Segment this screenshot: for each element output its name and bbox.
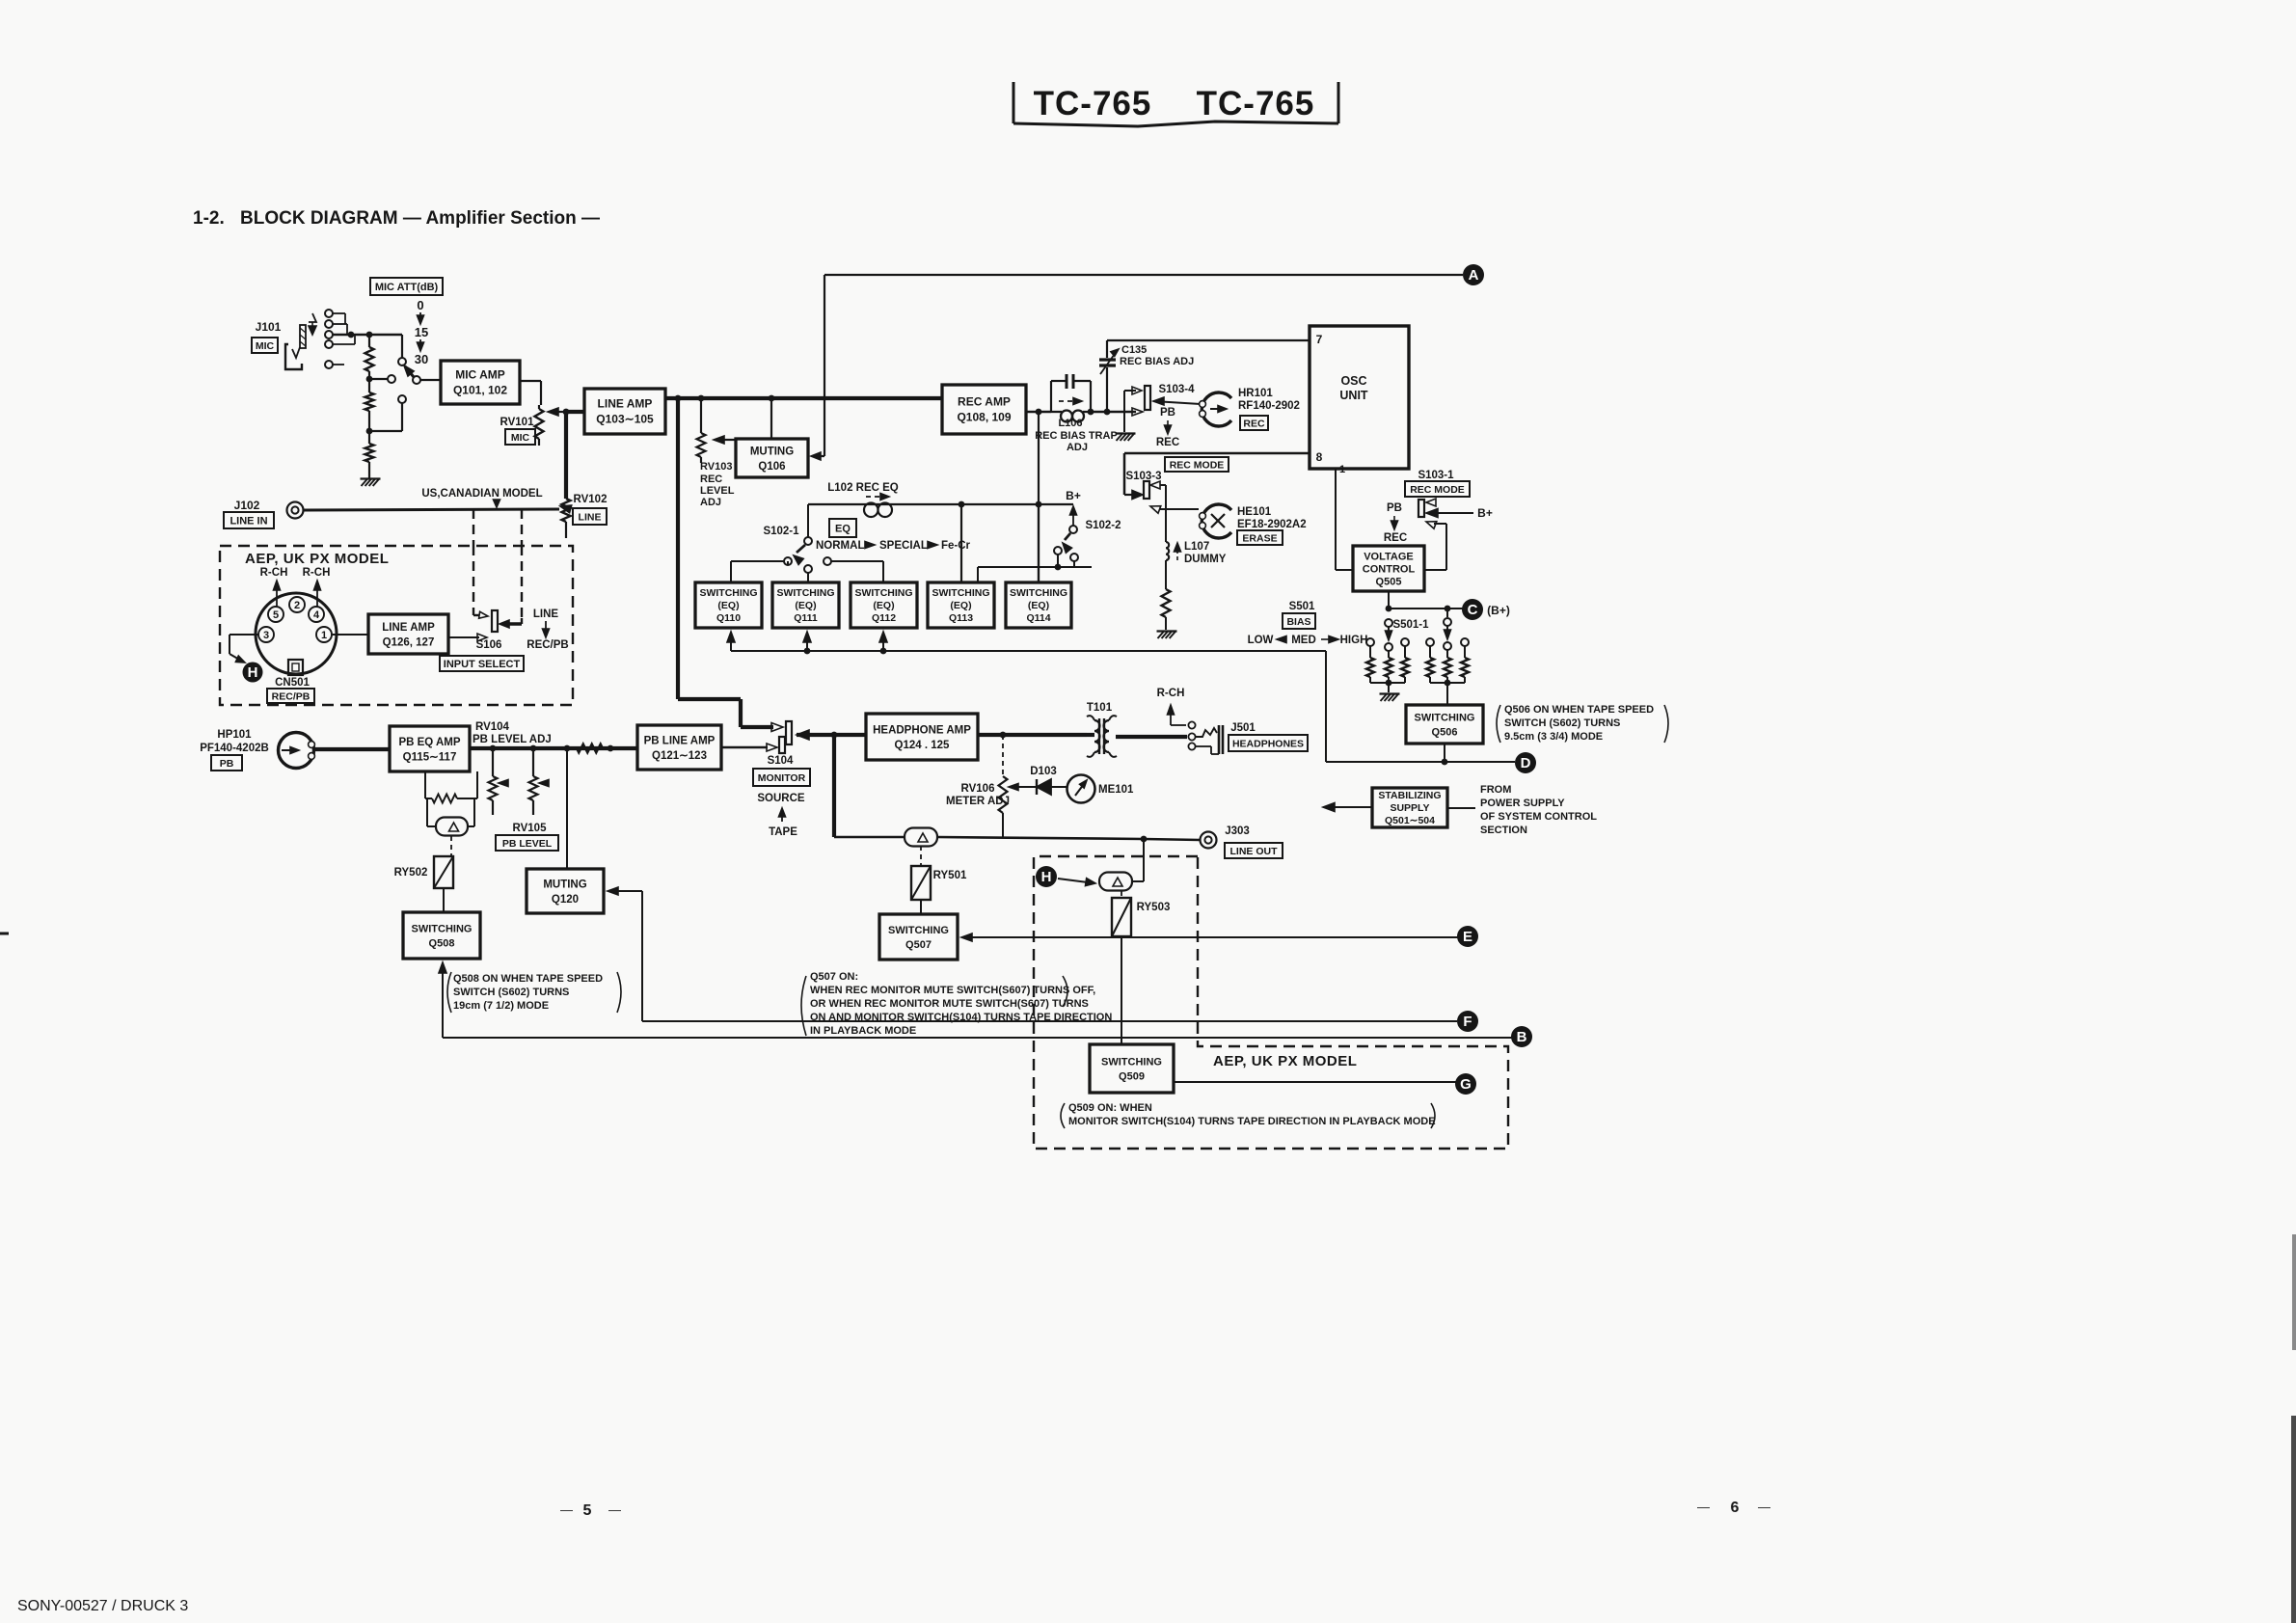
svg-text:6: 6 bbox=[1731, 1500, 1740, 1516]
svg-text:(EQ): (EQ) bbox=[1028, 600, 1049, 611]
wire from power supply bbox=[1447, 807, 1475, 809]
svg-text:—: — bbox=[1697, 1500, 1710, 1514]
feedback loop PB EQ AMP bbox=[424, 771, 426, 798]
svg-text:Q126, 127: Q126, 127 bbox=[383, 636, 435, 648]
svg-text:R-CH: R-CH bbox=[1157, 688, 1185, 699]
junction RV103 bbox=[698, 395, 705, 402]
arrow bus into Q112 bbox=[880, 648, 887, 655]
S102-1 SPECIAL contact bbox=[824, 557, 831, 565]
svg-text:—: — bbox=[560, 1502, 573, 1517]
junction RV104 bbox=[490, 745, 497, 752]
dashed box AEP UK PX MODEL bottom bbox=[1034, 856, 1508, 1149]
junction thick bus down bbox=[675, 395, 682, 402]
block VOLTAGE CONTROL Q505 bbox=[1353, 546, 1424, 591]
svg-text:Q112: Q112 bbox=[872, 612, 896, 624]
svg-text:RV103: RV103 bbox=[700, 461, 732, 473]
dashed link RY501 bbox=[920, 846, 922, 866]
wire PB LINE AMP to S104 bbox=[721, 746, 768, 748]
svg-text:SWITCH (S602) TURNS: SWITCH (S602) TURNS bbox=[453, 987, 569, 998]
svg-text:LOW: LOW bbox=[1248, 635, 1274, 646]
wire J102 LINE IN bbox=[304, 509, 559, 510]
jack J101 plug symbol bbox=[285, 344, 302, 369]
junction RV105 bbox=[530, 745, 537, 752]
label PB LEVEL boxed bbox=[496, 835, 558, 851]
svg-text:SWITCHING: SWITCHING bbox=[1415, 712, 1475, 723]
svg-text:CONTROL: CONTROL bbox=[1363, 563, 1416, 575]
svg-text:REC/PB: REC/PB bbox=[272, 690, 311, 702]
svg-text:Q110: Q110 bbox=[716, 612, 741, 624]
feedback relay contact RY502 bbox=[426, 798, 428, 826]
L107 dashed arrow bbox=[1176, 550, 1178, 560]
svg-text:—: — bbox=[608, 1502, 621, 1517]
switch S102-1 bbox=[807, 504, 809, 537]
svg-text:R-CH: R-CH bbox=[303, 567, 331, 579]
wire thick bus down to S104 bbox=[676, 398, 680, 699]
svg-text:VOLTAGE: VOLTAGE bbox=[1364, 551, 1414, 562]
svg-text:ON AND MONITOR SWITCH(S104) TU: ON AND MONITOR SWITCH(S104) TURNS TAPE D… bbox=[810, 1012, 1112, 1023]
wire S102-1 throw2 to Q112 bbox=[831, 560, 883, 562]
wire C node to S501-1 second pole bbox=[1446, 609, 1448, 617]
wire bias bank to Q506 bbox=[1446, 683, 1448, 705]
node G bbox=[1455, 1073, 1476, 1095]
transformer T101 bbox=[1098, 718, 1100, 754]
wire HEADPHONE AMP to T101 bbox=[978, 733, 1087, 737]
wire S104 node down to line out bbox=[832, 735, 836, 837]
wire MIC AMP to RV101 bbox=[520, 380, 541, 382]
svg-text:H: H bbox=[1041, 869, 1052, 885]
svg-text:PB: PB bbox=[1160, 407, 1175, 419]
label REC MODE S103-3 bbox=[1165, 457, 1229, 472]
svg-text:H: H bbox=[248, 664, 258, 681]
switch S106 bar bbox=[492, 610, 498, 632]
svg-text:A: A bbox=[1469, 267, 1479, 284]
svg-text:ADJ: ADJ bbox=[1067, 442, 1088, 453]
wire S103-1 from OSC pin1 bbox=[1335, 469, 1337, 570]
svg-text:T101: T101 bbox=[1087, 702, 1113, 714]
S103-1 lower contact to Q505 bbox=[1426, 522, 1437, 529]
S103-3 PB contact to dummy load bbox=[1150, 481, 1160, 489]
block SWITCHING Q509 bbox=[1090, 1044, 1174, 1093]
L102 dashed arrow bbox=[866, 496, 881, 498]
arrow PB to REC bbox=[1167, 420, 1169, 428]
label BIAS boxed bbox=[1283, 613, 1315, 629]
svg-text:AEP, UK PX MODEL: AEP, UK PX MODEL bbox=[1213, 1053, 1357, 1069]
node F bbox=[1457, 1011, 1478, 1032]
svg-text:5: 5 bbox=[273, 609, 279, 621]
svg-text:RV102: RV102 bbox=[574, 494, 608, 505]
label PB boxed bbox=[211, 755, 242, 771]
wire RY501 to Q507 bbox=[920, 900, 922, 914]
svg-text:RY502: RY502 bbox=[394, 867, 428, 879]
S103-4 upper contact ground hook bbox=[1132, 387, 1142, 394]
svg-text:1-2.: 1-2. bbox=[193, 208, 225, 229]
svg-text:Q101, 102: Q101, 102 bbox=[453, 384, 507, 397]
wire B line to Q508 bbox=[439, 962, 446, 973]
svg-text:Q103∼105: Q103∼105 bbox=[596, 413, 654, 426]
DIN pin 1 bbox=[316, 627, 332, 642]
wire down to RV103 bbox=[700, 398, 702, 433]
svg-text:EQ: EQ bbox=[835, 523, 851, 534]
switch S103-1 bar bbox=[1418, 500, 1424, 517]
svg-text:0: 0 bbox=[417, 298, 423, 312]
jack J501 contacts bbox=[1188, 721, 1195, 728]
svg-text:STABILIZING: STABILIZING bbox=[1378, 790, 1441, 801]
block MIC AMP Q101,102 bbox=[441, 361, 520, 404]
svg-text:Q505: Q505 bbox=[1376, 576, 1402, 587]
switch S103-4 bar bbox=[1145, 386, 1150, 410]
svg-text:B: B bbox=[1517, 1029, 1527, 1045]
svg-text:MONITOR SWITCH(S104) TURNS TAP: MONITOR SWITCH(S104) TURNS TAPE DIRECTIO… bbox=[1068, 1116, 1436, 1127]
junction PB line resistor right bbox=[608, 745, 614, 752]
svg-text:HEADPHONE AMP: HEADPHONE AMP bbox=[873, 724, 971, 736]
wire Q114 top from L102 bbox=[1038, 504, 1040, 582]
label MIC for J101 bbox=[252, 338, 278, 353]
dashed corner into S106 from line1 bbox=[473, 609, 474, 615]
wire F line to MUTING Q120 bbox=[608, 887, 618, 895]
DIN pin 2 bbox=[289, 597, 305, 612]
svg-text:MIC: MIC bbox=[511, 432, 530, 444]
connector J303 bbox=[1201, 832, 1217, 849]
potentiometer RV105 bbox=[532, 748, 534, 776]
dashed link to RY502 bbox=[450, 836, 452, 856]
svg-text:C135: C135 bbox=[1121, 344, 1147, 356]
svg-text:REC MODE: REC MODE bbox=[1170, 459, 1225, 471]
junction C135 bbox=[1104, 409, 1111, 416]
relay RY502 bbox=[434, 856, 453, 888]
label REC MODE S103-1 bbox=[1405, 481, 1470, 497]
pb head HP101 bbox=[279, 733, 314, 769]
svg-text:NORMAL: NORMAL bbox=[816, 540, 864, 552]
svg-text:METER ADJ: METER ADJ bbox=[946, 796, 1010, 807]
label MIC ATT(dB) bbox=[370, 278, 443, 295]
wire line out to J303 bbox=[937, 837, 1144, 839]
junction L106 right bbox=[1088, 409, 1094, 416]
svg-text:Q507: Q507 bbox=[905, 939, 932, 951]
svg-text:HE101: HE101 bbox=[1237, 506, 1272, 518]
block SWITCHING Q507 bbox=[879, 914, 958, 960]
svg-text:1: 1 bbox=[1339, 464, 1345, 475]
wire line amp Q126 to S106 bbox=[448, 636, 479, 638]
wire HP101 to PB EQ AMP bbox=[314, 747, 390, 751]
bias bank group1 join and ground bbox=[1370, 682, 1405, 684]
svg-text:FROM: FROM bbox=[1480, 784, 1511, 796]
svg-text:ADJ: ADJ bbox=[700, 497, 721, 508]
jack J101 contact triangles bbox=[309, 313, 316, 322]
svg-text:Q115∼117: Q115∼117 bbox=[403, 751, 457, 763]
label LINE IN bbox=[224, 512, 274, 528]
svg-text:MIC ATT(dB): MIC ATT(dB) bbox=[375, 282, 439, 293]
svg-text:PB: PB bbox=[1387, 502, 1402, 514]
potentiometer RV101 bbox=[535, 409, 544, 439]
svg-text:PB LEVEL ADJ: PB LEVEL ADJ bbox=[473, 734, 552, 745]
arrow R-CH pin5 bbox=[276, 588, 278, 607]
svg-text:Q508: Q508 bbox=[429, 937, 455, 949]
connector J102 jack bbox=[287, 502, 304, 519]
block SWITCHING Q508 bbox=[403, 912, 480, 959]
wire contact to line out bbox=[1132, 880, 1144, 882]
L106 dashed arrow bbox=[1059, 400, 1074, 402]
arrow B+ feed bbox=[1072, 513, 1074, 526]
svg-text:S501: S501 bbox=[1289, 601, 1315, 612]
svg-text:Q108, 109: Q108, 109 bbox=[957, 411, 1011, 424]
relay contact RY503 bbox=[1099, 873, 1132, 891]
wire REC AMP output bbox=[1026, 411, 1051, 413]
label LINE OUT boxed bbox=[1225, 843, 1283, 858]
svg-text:B+: B+ bbox=[1066, 489, 1081, 502]
switch S-att arm bbox=[405, 366, 414, 377]
resistor under L107 bbox=[1165, 560, 1167, 589]
svg-text:HEADPHONES: HEADPHONES bbox=[1232, 738, 1304, 749]
wire E line to Q507 bbox=[961, 933, 972, 941]
svg-text:SWITCHING: SWITCHING bbox=[888, 925, 949, 936]
svg-text:AEP, UK PX MODEL: AEP, UK PX MODEL bbox=[245, 551, 389, 567]
block LINE AMP Q126,127 bbox=[368, 614, 448, 654]
arrow US model callout bbox=[496, 500, 498, 502]
svg-text:S102-2: S102-2 bbox=[1085, 520, 1121, 531]
arrow PB REC S103-1 bbox=[1393, 516, 1395, 524]
svg-text:MIC AMP: MIC AMP bbox=[455, 368, 505, 382]
wire EQ vertical drop bbox=[1038, 412, 1040, 582]
S103-3 common to erase head bbox=[1150, 506, 1161, 514]
RV103 wiper arrow bbox=[721, 439, 736, 441]
svg-text:S501-1: S501-1 bbox=[1392, 619, 1429, 631]
svg-text:MUTING: MUTING bbox=[750, 446, 794, 457]
bias bank group2 join bbox=[1430, 682, 1465, 684]
block MUTING Q106 bbox=[736, 439, 808, 477]
dashed link RY503 bbox=[1121, 891, 1122, 898]
wire PB EQ AMP output bbox=[470, 746, 637, 750]
wire main bus LINE AMP to REC AMP bbox=[665, 396, 942, 400]
relay RY501 bbox=[911, 866, 931, 900]
svg-text:SWITCHING: SWITCHING bbox=[932, 587, 989, 599]
svg-text:Q120: Q120 bbox=[552, 894, 579, 906]
arrow TAPE to SOURCE bbox=[781, 813, 783, 822]
svg-text:RV105: RV105 bbox=[513, 823, 548, 834]
wire OSC pin8 bbox=[1124, 452, 1310, 455]
arrow stabilizing supply output bbox=[1331, 806, 1372, 808]
switch S501-1 bbox=[1385, 619, 1392, 627]
junction meter branch bbox=[1000, 732, 1007, 739]
dashed drop line 1 from LINE IN bbox=[473, 509, 474, 546]
svg-text:CN501: CN501 bbox=[275, 677, 310, 689]
svg-text:2: 2 bbox=[294, 600, 300, 611]
svg-text:Q114: Q114 bbox=[1026, 612, 1050, 624]
diode D103 bbox=[1018, 786, 1037, 788]
resistor mic att R2 bbox=[368, 379, 370, 392]
node E bbox=[1457, 926, 1478, 947]
svg-text:Q507 ON:: Q507 ON: bbox=[810, 971, 858, 983]
svg-text:Fe-Cr: Fe-Cr bbox=[941, 540, 971, 552]
svg-text:F: F bbox=[1463, 1014, 1472, 1030]
svg-text:TAPE: TAPE bbox=[769, 826, 797, 838]
wire line out left bbox=[834, 836, 905, 839]
label HEADPHONES boxed bbox=[1229, 735, 1308, 751]
svg-text:9.5cm (3 3/4) MODE: 9.5cm (3 3/4) MODE bbox=[1504, 731, 1603, 743]
svg-text:SOURCE: SOURCE bbox=[757, 793, 805, 804]
block SWITCHING Q506 bbox=[1406, 705, 1483, 744]
svg-text:B+: B+ bbox=[1477, 506, 1493, 520]
EQ bus to D bbox=[731, 650, 1326, 652]
wire Q506 to D line bbox=[1444, 744, 1445, 762]
svg-text:5: 5 bbox=[583, 1502, 592, 1519]
junction EQ drop bbox=[1036, 409, 1042, 416]
wire T101 to J501 bbox=[1116, 735, 1187, 739]
switch S103-3 bar bbox=[1144, 481, 1149, 499]
svg-text:SWITCHING: SWITCHING bbox=[854, 587, 912, 599]
inductor L102 REC EQ bbox=[864, 503, 878, 518]
svg-text:LINE AMP: LINE AMP bbox=[598, 397, 653, 411]
wire to ground bbox=[368, 462, 370, 478]
label REC/PB CN501 bbox=[267, 689, 314, 703]
block HEADPHONE AMP Q124,125 bbox=[866, 714, 978, 760]
svg-text:REC/PB: REC/PB bbox=[527, 639, 568, 651]
junction L102 to Q113 bbox=[959, 501, 965, 508]
svg-text:OF SYSTEM CONTROL: OF SYSTEM CONTROL bbox=[1480, 811, 1597, 823]
switch S-att common contact bbox=[398, 358, 406, 365]
svg-text:19cm (7 1/2) MODE: 19cm (7 1/2) MODE bbox=[453, 1000, 549, 1012]
svg-text:SPECIAL: SPECIAL bbox=[879, 540, 928, 552]
svg-text:S104: S104 bbox=[768, 755, 794, 767]
svg-text:S102-1: S102-1 bbox=[763, 526, 799, 537]
svg-text:SWITCHING: SWITCHING bbox=[1101, 1056, 1162, 1068]
svg-text:7: 7 bbox=[1316, 333, 1323, 346]
title frame TC-765 bbox=[1013, 82, 1015, 123]
label REC boxed bbox=[1240, 416, 1268, 430]
svg-text:MONITOR: MONITOR bbox=[758, 772, 806, 784]
svg-text:J303: J303 bbox=[1225, 825, 1250, 837]
svg-text:RV104: RV104 bbox=[475, 721, 510, 733]
block STABILIZING SUPPLY Q501~504 bbox=[1372, 788, 1447, 827]
dashed corner into S106 from line2 bbox=[521, 618, 523, 624]
junction J303 branch bbox=[1141, 836, 1148, 843]
wire A-line horizontal bbox=[824, 274, 1463, 276]
svg-text:Q501∼504: Q501∼504 bbox=[1385, 815, 1435, 826]
potentiometer RV106 METER ADJ bbox=[999, 776, 1008, 813]
svg-text:Q121∼123: Q121∼123 bbox=[652, 750, 707, 762]
svg-text:Q506: Q506 bbox=[1432, 726, 1458, 738]
svg-text:SWITCH (S602) TURNS: SWITCH (S602) TURNS bbox=[1504, 717, 1620, 729]
relay RY503 bbox=[1112, 898, 1131, 936]
meter ME101 bbox=[1067, 775, 1095, 803]
arrow R-CH J501 bbox=[1170, 711, 1172, 725]
wire vertical bus to RV102 bbox=[564, 412, 568, 499]
svg-text:BLOCK DIAGRAM — Amplifier Sect: BLOCK DIAGRAM — Amplifier Section — bbox=[240, 208, 600, 229]
svg-text:1: 1 bbox=[321, 630, 327, 641]
wire C135 to OSC pin 7 bbox=[1107, 339, 1310, 341]
svg-text:RY503: RY503 bbox=[1137, 902, 1171, 913]
svg-text:PB LINE AMP: PB LINE AMP bbox=[644, 735, 716, 746]
erase head HE101 bbox=[1202, 504, 1231, 538]
junction L102 to Q114 bbox=[1036, 501, 1042, 508]
bias resistor bank group1 bbox=[1366, 638, 1374, 646]
dashed drop line 2 from LINE IN bbox=[521, 509, 523, 546]
svg-text:Q113: Q113 bbox=[949, 612, 973, 624]
svg-text:Q124 . 125: Q124 . 125 bbox=[895, 740, 951, 751]
label ERASE boxed bbox=[1237, 530, 1283, 545]
DIN pin 4 bbox=[309, 607, 324, 622]
block SWITCHING (EQ) Q114 bbox=[1006, 582, 1071, 628]
svg-text:(EQ): (EQ) bbox=[717, 600, 739, 611]
svg-text:WHEN REC MONITOR MUTE SWITCH(S: WHEN REC MONITOR MUTE SWITCH(S607) TURNS… bbox=[810, 985, 1095, 996]
relay contact RY501 bbox=[905, 828, 937, 847]
svg-text:PF140-4202B: PF140-4202B bbox=[200, 743, 269, 754]
svg-text:TC-765: TC-765 bbox=[1197, 85, 1315, 122]
S103-3 REC contact arrow bbox=[1124, 494, 1132, 496]
svg-text:US,CANADIAN MODEL: US,CANADIAN MODEL bbox=[421, 488, 542, 500]
block PB EQ AMP Q115~117 bbox=[390, 726, 470, 771]
wire S102-1 throw1 to Q110 bbox=[787, 561, 789, 565]
rec head HR101 bbox=[1202, 392, 1231, 426]
S103-1 PB contact arrow bbox=[1426, 499, 1436, 506]
svg-text:(EQ): (EQ) bbox=[795, 600, 816, 611]
wire attenuator top tap bbox=[401, 335, 403, 358]
svg-text:IN PLAYBACK MODE: IN PLAYBACK MODE bbox=[810, 1025, 916, 1037]
svg-text:PB LEVEL: PB LEVEL bbox=[502, 838, 553, 850]
block LINE AMP Q103~105 bbox=[584, 389, 665, 434]
arrow 0 to 15 bbox=[419, 312, 421, 320]
stray mark left margin bbox=[0, 933, 9, 935]
node mic att 30 tap bbox=[368, 411, 370, 431]
dashed box AEP UK PX MODEL left bbox=[220, 546, 573, 705]
DIN pin 3 bbox=[258, 627, 274, 642]
svg-text:RF140-2902: RF140-2902 bbox=[1238, 400, 1300, 412]
potentiometer RV104 bbox=[492, 748, 494, 776]
wire main to S103-4 bbox=[1107, 411, 1136, 413]
svg-text:L106: L106 bbox=[1058, 418, 1082, 429]
block PB LINE AMP Q121~123 bbox=[637, 725, 721, 770]
inductor L106 REC BIAS TRAP bbox=[1061, 411, 1072, 422]
block SWITCHING (EQ) Q111 bbox=[772, 582, 839, 628]
label MONITOR boxed bbox=[753, 769, 810, 786]
svg-text:BIAS: BIAS bbox=[1286, 616, 1310, 628]
bias resistor bank group2 bbox=[1426, 638, 1434, 646]
wire DIN pin1 to line amp bbox=[332, 634, 368, 636]
svg-text:MED: MED bbox=[1291, 635, 1316, 646]
svg-text:D103: D103 bbox=[1030, 766, 1057, 777]
variable capacitor C135 REC BIAS ADJ bbox=[1099, 358, 1116, 361]
svg-text:SONY-00527 / DRUCK 3: SONY-00527 / DRUCK 3 bbox=[17, 1598, 188, 1614]
block SWITCHING (EQ) Q112 bbox=[851, 582, 917, 628]
svg-text:PB: PB bbox=[220, 758, 234, 770]
svg-text:HR101: HR101 bbox=[1238, 388, 1273, 399]
svg-text:POWER SUPPLY: POWER SUPPLY bbox=[1480, 798, 1565, 809]
block OSC UNIT bbox=[1310, 326, 1409, 469]
switch S-att 15 contact bbox=[388, 375, 395, 383]
svg-text:Q509 ON: WHEN: Q509 ON: WHEN bbox=[1068, 1102, 1152, 1114]
wire to MUTING Q106 bbox=[770, 398, 772, 439]
switch S102-2 bbox=[1069, 526, 1077, 533]
svg-text:LEVEL: LEVEL bbox=[700, 485, 735, 497]
svg-text:REC: REC bbox=[1384, 532, 1407, 544]
DIN pin 5 bbox=[268, 607, 284, 622]
svg-text:S103-4: S103-4 bbox=[1158, 384, 1195, 395]
svg-text:4: 4 bbox=[313, 609, 320, 621]
potentiometer RV103 REC LEVEL ADJ bbox=[697, 433, 706, 457]
svg-text:REC BIAS ADJ: REC BIAS ADJ bbox=[1120, 356, 1194, 367]
svg-text:3: 3 bbox=[263, 630, 269, 641]
svg-text:30: 30 bbox=[415, 352, 428, 366]
L102 wire bbox=[808, 503, 1073, 505]
svg-text:D: D bbox=[1521, 755, 1531, 771]
svg-text:HP101: HP101 bbox=[217, 729, 252, 741]
svg-text:DUMMY: DUMMY bbox=[1184, 554, 1227, 565]
switch S-att pivot bbox=[413, 376, 420, 384]
switch S-att 30 contact bbox=[398, 395, 406, 403]
svg-text:REC BIAS TRAP: REC BIAS TRAP bbox=[1035, 430, 1118, 442]
svg-text:SWITCHING: SWITCHING bbox=[1010, 587, 1067, 599]
wire EQ bus to D corner bbox=[1325, 651, 1327, 762]
wire RY502 to Q508 bbox=[443, 888, 445, 912]
